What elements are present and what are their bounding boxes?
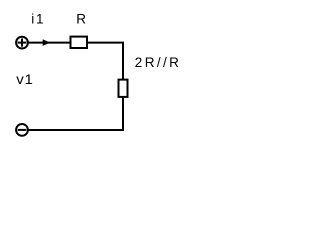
source v1 positive terminal [16,37,28,49]
wire from 2R//R down and along bottom [28,97,123,130]
resistor R [71,37,88,48]
current arrow i1 [43,39,50,46]
source v1 negative terminal [16,124,28,136]
wire from + terminal to resistor R [28,42,71,44]
svg-text:2R//R: 2R//R [135,55,182,70]
wire from R to top-right corner [87,43,123,80]
svg-text:i1: i1 [31,11,45,26]
svg-text:R: R [76,11,86,26]
resistor 2R//R [119,80,128,97]
svg-text:v1: v1 [16,72,33,87]
